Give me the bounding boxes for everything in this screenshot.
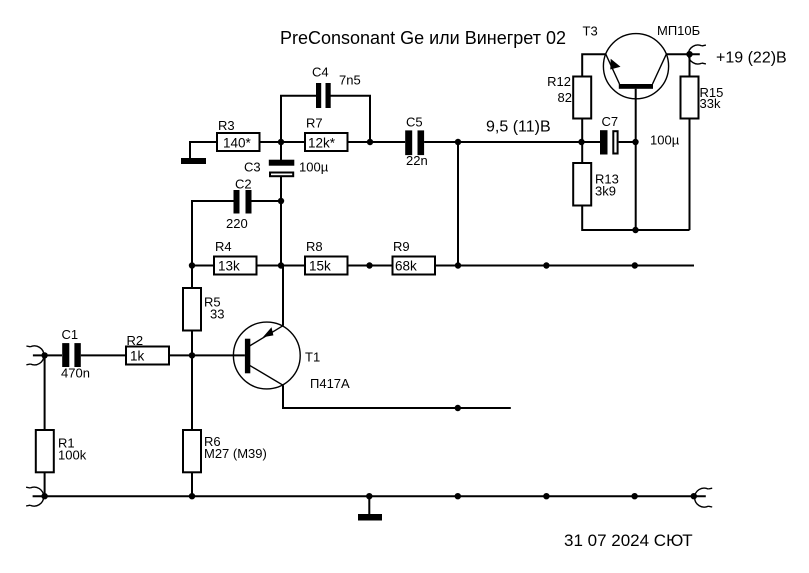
node row A x281 bbox=[278, 139, 284, 145]
node row B x635 bbox=[632, 262, 638, 268]
node rail-R11 bbox=[455, 493, 461, 499]
resistor R1 bbox=[36, 430, 54, 472]
node rail-R1 bbox=[41, 493, 47, 499]
resistor R2 bbox=[126, 347, 169, 365]
node rail-T4 collector bbox=[631, 493, 637, 499]
node row B x546 bbox=[543, 262, 549, 268]
wire R5-R6 vertical bbox=[191, 201, 193, 288]
svg-text:+19 (22)В: +19 (22)В bbox=[716, 50, 787, 67]
svg-text:470n: 470n bbox=[61, 366, 90, 381]
node rail-R16 bbox=[691, 493, 697, 499]
wire x458 vertical bbox=[457, 142, 459, 266]
power terminal +19V bbox=[688, 45, 706, 64]
wire base node to R6 bbox=[191, 355, 193, 430]
node row A x370 bbox=[367, 139, 373, 145]
node row A x458 bbox=[455, 139, 461, 145]
transistor T3 bbox=[603, 34, 668, 99]
node R11 top junction bbox=[455, 405, 461, 411]
wire R2 to T1 base bbox=[169, 354, 245, 356]
node input top junction bbox=[41, 352, 47, 358]
output terminal bottom bbox=[695, 488, 713, 507]
resistor R8 bbox=[305, 257, 348, 275]
wire R15 top bbox=[689, 54, 691, 76]
wire R12 to row A bbox=[581, 119, 583, 143]
capacitor C5 bbox=[405, 130, 412, 155]
wire T3 collector to +19V bbox=[666, 53, 700, 55]
resistor R12 bbox=[573, 77, 591, 119]
svg-text:13k: 13k bbox=[218, 259, 240, 274]
svg-text:R2: R2 bbox=[127, 333, 144, 348]
wire R6 to rail bbox=[191, 472, 193, 496]
svg-text:МП10Б: МП10Б bbox=[657, 23, 700, 38]
node rail-R6 bbox=[189, 493, 195, 499]
svg-text:82: 82 bbox=[558, 90, 572, 105]
svg-text:C4: C4 bbox=[312, 65, 329, 80]
svg-text:C3: C3 bbox=[244, 160, 261, 175]
svg-text:R3: R3 bbox=[218, 118, 235, 133]
svg-text:1k: 1k bbox=[130, 349, 145, 364]
wire C3 down bbox=[280, 177, 282, 266]
svg-text:7n5: 7n5 bbox=[339, 73, 361, 88]
capacitor C7 bbox=[600, 130, 608, 154]
ground top left bbox=[190, 142, 217, 158]
wire C7 to T3 base line bbox=[619, 141, 636, 143]
wire R1 vertical bbox=[44, 355, 46, 430]
capacitor C3 bbox=[280, 142, 282, 160]
svg-text:C1: C1 bbox=[62, 327, 79, 342]
svg-text:PreConsonant Ge или Винегрет 0: PreConsonant Ge или Винегрет 02 bbox=[280, 28, 566, 48]
svg-text:C7: C7 bbox=[602, 114, 619, 129]
svg-text:12k*: 12k* bbox=[308, 135, 336, 150]
svg-text:R4: R4 bbox=[215, 239, 232, 254]
svg-text:C5: C5 bbox=[406, 115, 423, 130]
svg-text:C2: C2 bbox=[235, 177, 252, 192]
wire R7 to C5 bbox=[348, 141, 406, 143]
wire T3 emitter to R12 bbox=[582, 54, 606, 76]
node row A x635 bbox=[632, 139, 638, 145]
resistor R13 bbox=[573, 163, 591, 206]
svg-text:140*: 140* bbox=[223, 135, 252, 150]
node row B x458 bbox=[455, 262, 461, 268]
svg-text:100µ: 100µ bbox=[650, 133, 680, 148]
wire input top to C1 bbox=[33, 354, 62, 356]
svg-text:3k9: 3k9 bbox=[595, 184, 616, 199]
wire C5 to C7 bbox=[424, 141, 600, 143]
capacitor C4 loop bbox=[281, 96, 316, 142]
wire row A to R13 bbox=[581, 142, 583, 163]
svg-text:100k: 100k bbox=[58, 448, 87, 463]
wire C1 to R2 bbox=[81, 354, 126, 356]
node row B x281 bbox=[278, 262, 284, 268]
row B wire R4 R8 R9 bbox=[192, 265, 214, 267]
wire T3 base down bbox=[635, 89, 637, 230]
svg-text:15k: 15k bbox=[309, 259, 331, 274]
svg-text:100µ: 100µ bbox=[299, 160, 329, 175]
node rail-T2 emitter bbox=[543, 493, 549, 499]
svg-text:220: 220 bbox=[226, 216, 248, 231]
resistor R7 bbox=[305, 133, 348, 151]
node row A x581 bbox=[578, 139, 584, 145]
resistor R3 bbox=[217, 133, 260, 151]
transistor T1 bbox=[233, 322, 300, 389]
wire R5 to base node bbox=[191, 331, 193, 356]
svg-text:R9: R9 bbox=[393, 239, 410, 254]
svg-text:33: 33 bbox=[210, 307, 224, 322]
svg-text:R7: R7 bbox=[306, 116, 323, 131]
svg-text:31 07 2024 СЮТ: 31 07 2024 СЮТ bbox=[564, 531, 693, 550]
node +19V junction bbox=[686, 51, 692, 57]
node rail-ground bbox=[366, 493, 372, 499]
svg-text:9,5 (11)В: 9,5 (11)В bbox=[486, 119, 551, 136]
node loop bottom x635 bbox=[632, 227, 638, 233]
node T1 base junction bbox=[189, 352, 195, 358]
node C2 junction bbox=[278, 198, 284, 204]
input terminal top bbox=[26, 346, 44, 365]
svg-text:М27 (М39): М27 (М39) bbox=[204, 446, 267, 461]
svg-text:22n: 22n bbox=[406, 153, 428, 168]
resistor R15 bbox=[681, 77, 699, 119]
svg-text:Т3: Т3 bbox=[583, 24, 598, 39]
wire R15 bottom to loop bbox=[689, 119, 691, 231]
node row B x192 bbox=[189, 262, 195, 268]
svg-text:33k: 33k bbox=[700, 96, 721, 111]
wire R3 to node bbox=[260, 141, 306, 143]
resistor R9 bbox=[393, 257, 436, 275]
resistor R6 bbox=[183, 430, 201, 472]
resistor R4 bbox=[214, 257, 257, 275]
capacitor C2 bbox=[192, 201, 234, 266]
ground bottom bbox=[368, 496, 370, 514]
input terminal bottom bbox=[26, 487, 44, 506]
node row B x369 bbox=[366, 262, 372, 268]
svg-text:П417А: П417А bbox=[310, 376, 350, 391]
svg-text:68k: 68k bbox=[395, 259, 417, 274]
svg-text:R8: R8 bbox=[306, 239, 323, 254]
resistor R5 bbox=[183, 288, 201, 331]
svg-text:Т1: Т1 bbox=[305, 350, 320, 365]
capacitor C1 bbox=[62, 343, 69, 367]
svg-text:R12: R12 bbox=[547, 74, 571, 89]
wire T1 collector down and right to T2 base bbox=[283, 385, 511, 408]
wire R1 to bottom rail bbox=[44, 472, 46, 496]
wire T1 emitter up to row B bbox=[282, 266, 284, 326]
bottom rail wire bbox=[33, 495, 706, 497]
wire R13 to loop bottom bbox=[582, 206, 689, 231]
